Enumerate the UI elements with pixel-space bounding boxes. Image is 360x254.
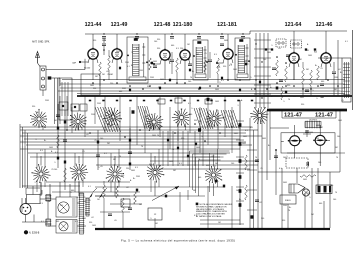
capacitor C15 <box>128 208 132 210</box>
output tube V8 121-47 <box>288 136 302 146</box>
capacitor C11 <box>332 72 336 74</box>
pointer line <box>152 186 179 201</box>
svg-text:50M: 50M <box>160 79 164 81</box>
wire center grid <box>163 131 203 166</box>
band switch S4a <box>145 113 163 131</box>
svg-text:.02: .02 <box>106 71 109 73</box>
band switch S3a <box>103 108 122 127</box>
svg-text:50M: 50M <box>316 125 320 127</box>
speaker SP1 <box>289 184 305 193</box>
rail bypass caps <box>102 33 245 38</box>
IF transformer T1 <box>127 37 148 83</box>
svg-text:1M: 1M <box>196 54 199 56</box>
svg-text:5M: 5M <box>193 190 196 192</box>
svg-text:100: 100 <box>330 185 333 187</box>
svg-text:70: 70 <box>336 157 338 159</box>
resistor R1 <box>108 50 111 80</box>
svg-text:121-64: 121-64 <box>285 22 302 28</box>
svg-text:10M: 10M <box>338 120 342 122</box>
tone box <box>148 208 162 220</box>
wire burst brackets <box>190 151 230 196</box>
coil L4 winding <box>221 110 239 128</box>
pointer arrows <box>89 188 107 198</box>
svg-text:70: 70 <box>48 201 50 203</box>
svg-text:250: 250 <box>180 48 183 50</box>
wire tube V6 121-64 leads <box>289 31 299 80</box>
svg-text:.5: .5 <box>131 52 133 54</box>
svg-text:400: 400 <box>119 91 122 93</box>
svg-text:.5: .5 <box>309 197 311 199</box>
svg-text:121-44: 121-44 <box>85 22 102 28</box>
svg-text:350: 350 <box>157 39 160 41</box>
right margin wire <box>352 30 354 110</box>
svg-text:25M: 25M <box>45 100 49 102</box>
svg-text:50M: 50M <box>283 182 287 184</box>
svg-text:6.3: 6.3 <box>40 150 43 152</box>
svg-text:100: 100 <box>231 163 234 165</box>
svg-text:400: 400 <box>206 165 209 167</box>
transformer T6 secondary <box>85 198 90 216</box>
tube V6 121-64 <box>289 52 299 64</box>
resistor R6 <box>149 58 152 70</box>
svg-text:6.3: 6.3 <box>199 121 202 123</box>
output stage frame <box>281 133 345 153</box>
ballast V10 <box>20 198 31 222</box>
svg-text:100: 100 <box>154 41 157 43</box>
svg-text:50M: 50M <box>131 170 135 172</box>
svg-text:50M: 50M <box>116 51 120 53</box>
band switch S6a <box>205 109 224 126</box>
osc box T4 <box>342 58 351 102</box>
resistor R7 <box>302 62 305 96</box>
field box <box>280 195 296 204</box>
svg-text:0.1: 0.1 <box>345 41 348 43</box>
svg-text:100: 100 <box>189 114 192 116</box>
svg-text:10M: 10M <box>233 69 237 71</box>
wire antenna feed <box>43 59 85 127</box>
svg-text:10M: 10M <box>262 138 266 140</box>
wire bottom middle <box>95 186 244 229</box>
svg-text:.1: .1 <box>70 192 72 194</box>
svg-text:50M: 50M <box>102 40 106 42</box>
terminal dashes row <box>89 100 253 102</box>
svg-text:AT RATED LINE VOLTAGE.: AT RATED LINE VOLTAGE. <box>196 215 222 218</box>
svg-text:10M: 10M <box>153 61 157 63</box>
svg-text:121-49: 121-49 <box>111 22 128 28</box>
capacitor C4 <box>208 52 212 78</box>
electrolytic CH1 <box>316 185 332 194</box>
tube V3 121-48 <box>160 49 170 61</box>
svg-text:.5: .5 <box>286 156 288 158</box>
coupling box T5 <box>305 120 321 129</box>
padder P2 <box>291 40 302 48</box>
svg-text:250: 250 <box>93 88 96 90</box>
svg-text:0.1: 0.1 <box>88 186 91 188</box>
speaker box B2 <box>56 220 77 234</box>
svg-text:100: 100 <box>337 136 340 138</box>
svg-text:1M: 1M <box>215 163 218 165</box>
svg-text:121-180: 121-180 <box>173 22 193 28</box>
svg-text:70: 70 <box>198 159 200 161</box>
tube V1 121-44 <box>88 48 98 60</box>
svg-text:100: 100 <box>263 59 266 61</box>
svg-text:100: 100 <box>187 59 190 61</box>
svg-text:.25: .25 <box>238 128 241 130</box>
svg-text:400: 400 <box>149 164 152 166</box>
capacitor C7 <box>188 64 192 66</box>
svg-text:400: 400 <box>121 175 124 177</box>
bus band 2 <box>20 123 262 188</box>
svg-text:121-48: 121-48 <box>154 22 171 28</box>
svg-text:6.3: 6.3 <box>77 197 80 199</box>
svg-text:6.3: 6.3 <box>179 163 182 165</box>
svg-text:.1: .1 <box>35 139 37 141</box>
svg-text:25M: 25M <box>315 138 319 140</box>
svg-text:100: 100 <box>83 201 86 203</box>
bus band 3 <box>96 161 258 169</box>
svg-text:.5: .5 <box>108 56 110 58</box>
svg-text:25M: 25M <box>97 103 101 105</box>
svg-text:350: 350 <box>217 67 220 69</box>
svg-text:.02: .02 <box>126 187 129 189</box>
svg-text:0.1: 0.1 <box>279 168 282 170</box>
svg-text:0.1: 0.1 <box>55 152 58 154</box>
svg-text:6.3: 6.3 <box>221 80 224 82</box>
svg-text:10M: 10M <box>49 147 53 149</box>
svg-text:2M: 2M <box>311 214 314 216</box>
svg-text:70: 70 <box>172 149 174 151</box>
svg-text:6.3: 6.3 <box>214 54 217 56</box>
svg-text:400: 400 <box>171 45 174 47</box>
ant shield box <box>59 78 72 120</box>
bottom rail heavy <box>95 228 330 230</box>
svg-text:.25: .25 <box>88 200 91 202</box>
svg-text:1M: 1M <box>334 89 337 91</box>
capacitor C2 <box>102 38 106 55</box>
svg-text:.02: .02 <box>338 69 341 71</box>
component chain A <box>56 104 60 168</box>
component chain B <box>63 110 67 190</box>
svg-text:.02: .02 <box>245 60 248 62</box>
coupling parts <box>303 130 311 137</box>
band switch S5a <box>172 108 191 127</box>
wire mid verticals <box>60 96 232 153</box>
resistor R16 <box>122 198 125 212</box>
svg-text:2M: 2M <box>102 74 105 76</box>
wire tube V7 121-46 leads <box>321 31 331 80</box>
svg-text:6.3: 6.3 <box>136 48 139 50</box>
wire output bottom <box>258 110 340 228</box>
svg-text:10M: 10M <box>92 225 96 227</box>
capacitor C10 <box>320 84 324 86</box>
svg-text:.05: .05 <box>211 156 214 158</box>
note block <box>196 203 233 218</box>
svg-text:70: 70 <box>288 99 290 101</box>
mixer shield box <box>81 74 100 95</box>
band switch S2a <box>69 113 86 131</box>
svg-text:10M: 10M <box>90 85 94 87</box>
svg-text:350: 350 <box>157 48 160 50</box>
svg-text:100: 100 <box>54 169 57 171</box>
bus band 1 <box>58 79 345 93</box>
svg-text:.5: .5 <box>250 77 252 79</box>
svg-text:70: 70 <box>190 77 192 79</box>
svg-text:.25: .25 <box>314 52 317 54</box>
switch column parts <box>272 55 290 100</box>
svg-text:10M: 10M <box>267 52 271 54</box>
svg-text:121-47: 121-47 <box>284 113 302 119</box>
band switch S1b <box>31 164 50 183</box>
svg-text:5M: 5M <box>173 170 176 172</box>
svg-text:0.1: 0.1 <box>41 221 44 223</box>
svg-text:6.3: 6.3 <box>40 203 43 205</box>
svg-text:.02: .02 <box>91 217 94 219</box>
svg-text:.02: .02 <box>149 124 152 126</box>
svg-text:2M: 2M <box>107 143 110 145</box>
svg-text:350: 350 <box>223 66 226 68</box>
svg-text:.05: .05 <box>114 220 117 222</box>
svg-text:.05: .05 <box>99 116 102 118</box>
trimmer row <box>265 48 316 50</box>
svg-text:50M: 50M <box>169 161 173 163</box>
svg-text:.5: .5 <box>283 101 285 103</box>
wire tube V4 121-180 leads <box>180 34 190 80</box>
svg-text:250: 250 <box>110 83 113 85</box>
grid cap V3 <box>153 63 161 65</box>
band switch S1a <box>30 109 47 128</box>
svg-text:.25: .25 <box>39 194 42 196</box>
svg-text:1M: 1M <box>187 44 190 46</box>
svg-text:5M: 5M <box>155 223 158 225</box>
svg-text:10M: 10M <box>243 136 247 138</box>
svg-text:.1: .1 <box>201 136 203 138</box>
resistor R15 <box>103 181 106 198</box>
svg-text:.05: .05 <box>100 166 103 168</box>
svg-text:.02: .02 <box>86 134 89 136</box>
svg-text:1M: 1M <box>218 222 221 224</box>
svg-text:400: 400 <box>319 203 322 205</box>
divider chain R10 <box>236 100 244 225</box>
output tube V9 121-47 <box>313 135 327 145</box>
svg-text:250M: 250M <box>107 74 112 76</box>
svg-text:FIELD: FIELD <box>285 200 291 202</box>
svg-text:.1: .1 <box>180 109 182 111</box>
svg-text:.05: .05 <box>341 100 344 102</box>
svg-text:1M: 1M <box>139 204 142 206</box>
svg-text:6.3: 6.3 <box>250 127 253 129</box>
band switch S4b <box>147 164 165 183</box>
wire tube V2 121-49 leads <box>112 34 122 80</box>
svg-text:350: 350 <box>147 86 150 88</box>
resistor R9 <box>317 66 320 80</box>
svg-text:70: 70 <box>230 64 232 66</box>
svg-text:50M: 50M <box>300 97 304 99</box>
svg-text:350: 350 <box>282 220 285 222</box>
svg-text:400: 400 <box>56 221 59 223</box>
svg-text:0.1: 0.1 <box>127 66 130 68</box>
svg-text:50M: 50M <box>224 40 228 42</box>
resistor R17 <box>134 192 137 204</box>
wire bottom-left <box>22 182 86 226</box>
svg-text:.25: .25 <box>260 168 263 170</box>
svg-text:5M: 5M <box>95 76 98 78</box>
svg-text:50M: 50M <box>215 89 219 91</box>
svg-text:.5: .5 <box>271 45 273 47</box>
trimmer cluster <box>59 102 87 111</box>
capacitor C5 <box>220 44 224 46</box>
svg-text:5M: 5M <box>306 69 309 71</box>
svg-text:121-46: 121-46 <box>316 22 333 28</box>
svg-text:70: 70 <box>157 135 159 137</box>
speaker box B1 <box>56 197 77 217</box>
svg-text:25M: 25M <box>139 70 143 72</box>
svg-text:70: 70 <box>255 157 257 159</box>
svg-text:25M: 25M <box>91 114 95 116</box>
svg-text:250: 250 <box>126 168 129 170</box>
svg-text:70: 70 <box>288 210 290 212</box>
output small parts <box>274 149 316 177</box>
svg-text:350: 350 <box>181 138 184 140</box>
wire switch drops <box>35 123 218 196</box>
svg-text:350: 350 <box>301 104 304 106</box>
svg-text:350: 350 <box>194 120 197 122</box>
band switch S3b <box>106 164 124 182</box>
svg-text:N. 5256-B: N. 5256-B <box>29 233 40 235</box>
padder P1 <box>276 39 286 47</box>
band switch S5b <box>205 166 222 184</box>
svg-text:.5: .5 <box>54 162 56 164</box>
svg-text:0.1: 0.1 <box>188 103 191 105</box>
tube V2 121-49 <box>112 48 122 60</box>
capacitor C6 <box>153 66 157 68</box>
svg-text:100: 100 <box>333 199 336 201</box>
svg-text:100: 100 <box>340 91 343 93</box>
band switch S7a <box>250 107 268 124</box>
svg-text:.25: .25 <box>94 140 97 142</box>
IF transformer T3 <box>235 38 250 80</box>
svg-text:350: 350 <box>287 85 290 87</box>
svg-text:.5: .5 <box>191 108 193 110</box>
svg-text:50M: 50M <box>305 50 309 52</box>
svg-text:50M: 50M <box>242 143 246 145</box>
svg-text:Fig. 5 — Lo schema elettrico d: Fig. 5 — Lo schema elettrico del superet… <box>121 238 235 242</box>
svg-text:10M: 10M <box>236 190 240 192</box>
svg-text:250: 250 <box>307 193 310 195</box>
rect filament box <box>27 195 41 204</box>
svg-text:5M: 5M <box>113 159 116 161</box>
circled note <box>24 230 40 234</box>
wire right-mid column <box>247 118 257 228</box>
svg-text:50M: 50M <box>152 135 156 137</box>
svg-text:.25: .25 <box>83 197 86 199</box>
svg-text:.5: .5 <box>219 82 221 84</box>
svg-text:0.1: 0.1 <box>104 153 107 155</box>
jack J1 <box>302 189 309 196</box>
svg-text:70: 70 <box>228 116 230 118</box>
resistor R4 <box>217 58 220 83</box>
capacitor C16 <box>108 214 112 216</box>
svg-text:25M: 25M <box>283 205 287 207</box>
svg-text:400: 400 <box>321 81 324 83</box>
svg-text:1M: 1M <box>54 120 57 122</box>
svg-text:.25: .25 <box>156 125 159 127</box>
wire tube V3 121-48 leads <box>160 34 170 80</box>
svg-text:25M: 25M <box>122 88 126 90</box>
bus band 4 <box>46 182 225 196</box>
svg-text:6.3: 6.3 <box>176 48 179 50</box>
svg-text:25M: 25M <box>150 77 154 79</box>
terminal strip TS1 <box>40 66 46 90</box>
svg-text:.5: .5 <box>312 90 314 92</box>
svg-text:.25: .25 <box>180 57 183 59</box>
svg-text:100: 100 <box>293 96 296 98</box>
svg-text:.05: .05 <box>278 48 281 50</box>
wire output tubes <box>270 110 336 166</box>
wire tube V5 121-181 leads <box>223 34 233 80</box>
svg-text:400: 400 <box>198 177 201 179</box>
svg-text:50M: 50M <box>234 133 238 135</box>
misc blobs <box>119 62 261 92</box>
capacitor C3 <box>170 52 174 74</box>
svg-text:.25: .25 <box>320 68 323 70</box>
svg-text:121-47: 121-47 <box>315 113 333 119</box>
svg-text:100: 100 <box>318 162 321 164</box>
B+ rail heavy <box>267 109 347 112</box>
svg-text:50,000: 50,000 <box>84 68 91 70</box>
svg-text:.25: .25 <box>82 151 85 153</box>
svg-text:70: 70 <box>119 156 121 158</box>
tube V4 121-180 <box>180 49 190 61</box>
svg-text:10M: 10M <box>167 59 171 61</box>
svg-text:10M: 10M <box>215 101 219 103</box>
svg-text:.02: .02 <box>235 79 238 81</box>
svg-text:10M: 10M <box>320 97 324 99</box>
volume box <box>116 180 226 207</box>
svg-text:.5: .5 <box>150 218 152 220</box>
resistor R2 <box>99 62 102 86</box>
svg-text:250: 250 <box>60 205 63 207</box>
svg-text:250: 250 <box>85 213 88 215</box>
svg-text:350: 350 <box>93 40 96 42</box>
svg-text:OUTPUT: OUTPUT <box>309 120 318 122</box>
component chain D <box>128 128 132 170</box>
svg-text:121-181: 121-181 <box>217 22 237 28</box>
svg-text:10M: 10M <box>82 218 86 220</box>
grid cap V5 <box>216 62 224 64</box>
top rail wire <box>85 31 347 34</box>
svg-text:25M: 25M <box>334 77 338 79</box>
transformer T6 winding <box>79 193 85 234</box>
svg-text:1M: 1M <box>118 181 121 183</box>
svg-text:50M: 50M <box>196 147 200 149</box>
svg-text:1M: 1M <box>97 199 100 201</box>
wire tube V1 121-44 leads <box>88 34 98 80</box>
coil L2 winding <box>138 106 154 129</box>
svg-text:.5: .5 <box>98 167 100 169</box>
svg-text:50M: 50M <box>303 179 307 181</box>
svg-text:.25: .25 <box>204 53 207 55</box>
svg-text:ANT. GND. SPK.: ANT. GND. SPK. <box>32 41 50 44</box>
svg-text:70: 70 <box>141 146 143 148</box>
svg-text:70: 70 <box>80 171 82 173</box>
svg-text:.02: .02 <box>260 121 263 123</box>
band switch S2b <box>70 164 88 182</box>
tube V5 121-181 <box>223 48 233 60</box>
svg-text:25M: 25M <box>136 176 140 178</box>
tube V7 121-46 <box>321 52 331 64</box>
svg-text:.5: .5 <box>316 98 318 100</box>
coil L3 winding <box>194 108 213 129</box>
